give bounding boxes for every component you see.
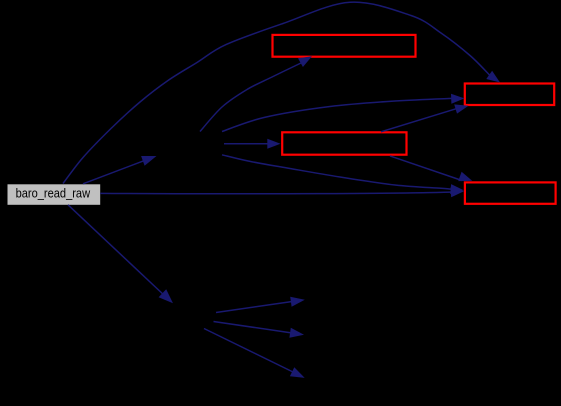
svg-text:baro_read_raw: baro_read_raw — [16, 186, 91, 201]
